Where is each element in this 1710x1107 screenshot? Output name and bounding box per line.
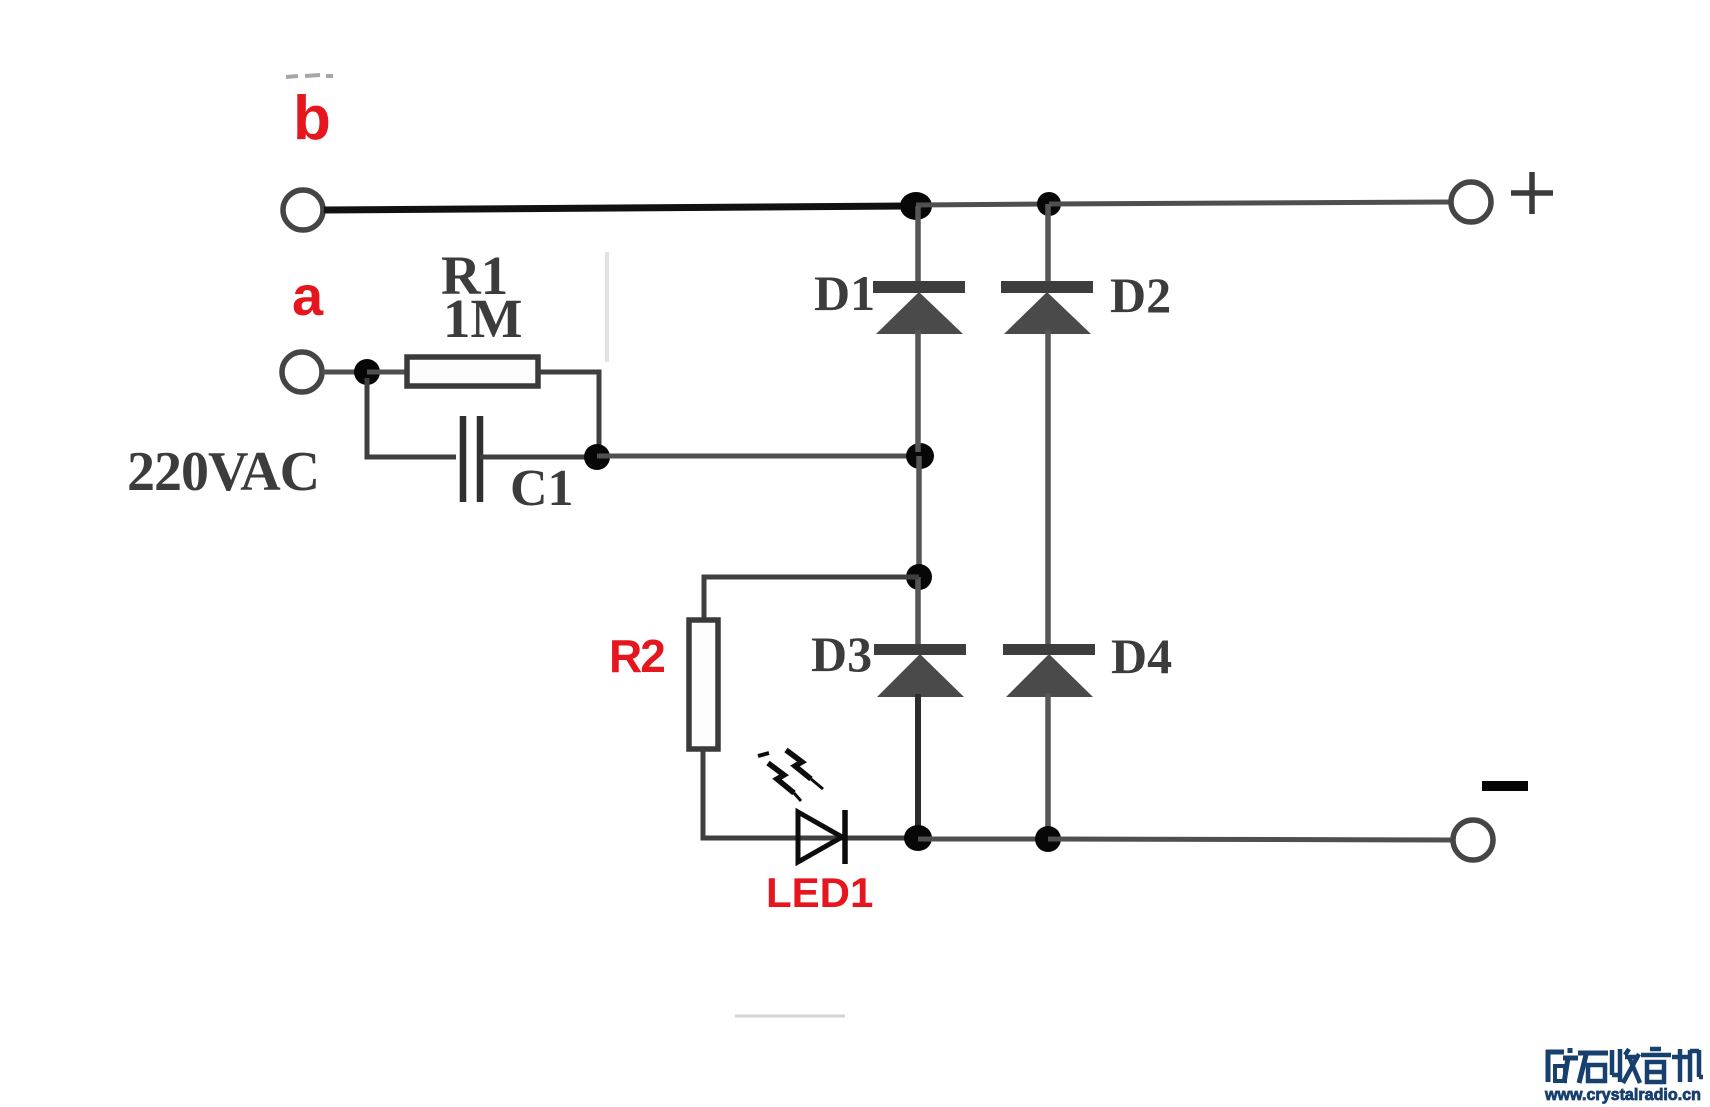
terminal + output bbox=[1451, 182, 1491, 222]
wire D1 branch upper bbox=[915, 206, 921, 283]
svg-text:LED1: LED1 bbox=[766, 869, 873, 916]
wire node a to R1 bbox=[367, 370, 407, 375]
junction node top D1 bbox=[900, 192, 932, 220]
wire mid node down to R2 node bbox=[916, 456, 922, 577]
diode D2 bbox=[1001, 281, 1093, 334]
wire R2 top horizontal bbox=[704, 577, 919, 620]
LED1 emission arrows bbox=[758, 750, 823, 801]
scan artifact vertical streak bbox=[605, 252, 609, 362]
junction node C1 right bbox=[584, 444, 610, 470]
svg-text:D4: D4 bbox=[1111, 628, 1172, 684]
wire D1 to mid node bbox=[915, 330, 921, 452]
wire D4 to bottom node bbox=[1045, 693, 1051, 839]
watermark logo crystalradio bbox=[1546, 1048, 1703, 1083]
resistor R1 bbox=[407, 357, 538, 386]
char shi bbox=[1578, 1053, 1608, 1083]
wire bottom to - terminal bbox=[1048, 839, 1453, 840]
svg-text:D3: D3 bbox=[811, 626, 872, 682]
wire D2 down to D4 bbox=[1045, 330, 1051, 646]
wire C1 node to bridge mid node bbox=[597, 454, 910, 459]
wire D2 junction to + terminal bbox=[1049, 202, 1451, 204]
svg-text:R2: R2 bbox=[609, 630, 664, 682]
terminal a bbox=[282, 352, 322, 392]
scan artifact dashes top bbox=[286, 75, 333, 77]
svg-text:1M: 1M bbox=[443, 288, 522, 349]
junction node a bbox=[354, 359, 380, 385]
wire R1 right lead down to C1 node bbox=[538, 372, 599, 452]
svg-text:220VAC: 220VAC bbox=[127, 441, 319, 503]
wire bottom node to D4 node bbox=[918, 837, 1048, 842]
wire D2 branch upper bbox=[1045, 204, 1051, 283]
svg-text:D1: D1 bbox=[814, 265, 875, 321]
char ji bbox=[1672, 1049, 1703, 1082]
wire D3 to bottom node bbox=[915, 694, 921, 834]
wire C1 right to node bbox=[480, 455, 590, 460]
svg-text:www.crystalradio.cn: www.crystalradio.cn bbox=[1544, 1086, 1701, 1104]
junction node bottom D4 bbox=[1035, 826, 1061, 852]
wire a to node bbox=[322, 370, 360, 375]
wire R2 node down to D3 bbox=[915, 577, 921, 648]
junction node bridge mid bbox=[906, 443, 934, 469]
terminal b bbox=[283, 190, 323, 230]
char yin bbox=[1641, 1049, 1671, 1082]
char kuang bbox=[1546, 1048, 1578, 1083]
svg-text:D2: D2 bbox=[1110, 267, 1171, 323]
wire top junction to D2 junction bbox=[916, 204, 1049, 205]
LED1 diode bbox=[798, 810, 845, 864]
diode D1 bbox=[873, 281, 965, 334]
svg-text:b: b bbox=[293, 84, 331, 153]
resistor R2 bbox=[689, 620, 718, 749]
char shou bbox=[1612, 1049, 1640, 1083]
svg-text:a: a bbox=[292, 264, 324, 327]
wire b to bridge top junction bbox=[324, 206, 905, 210]
scan artifact faint line bottom bbox=[735, 1015, 845, 1018]
wire R2 bottom to LED bbox=[703, 749, 906, 838]
plus sign bbox=[1511, 172, 1553, 214]
diode D3 bbox=[874, 644, 966, 697]
junction node R2 top bbox=[906, 564, 932, 590]
terminal - output bbox=[1453, 820, 1493, 860]
minus sign bbox=[1482, 781, 1528, 791]
wire node a down to C1 left bbox=[367, 378, 456, 457]
junction node top D2 bbox=[1037, 192, 1061, 216]
capacitor C1 bbox=[463, 416, 480, 502]
svg-text:C1: C1 bbox=[510, 460, 574, 517]
diode D4 bbox=[1003, 644, 1095, 697]
junction node bottom D3 bbox=[904, 825, 932, 851]
